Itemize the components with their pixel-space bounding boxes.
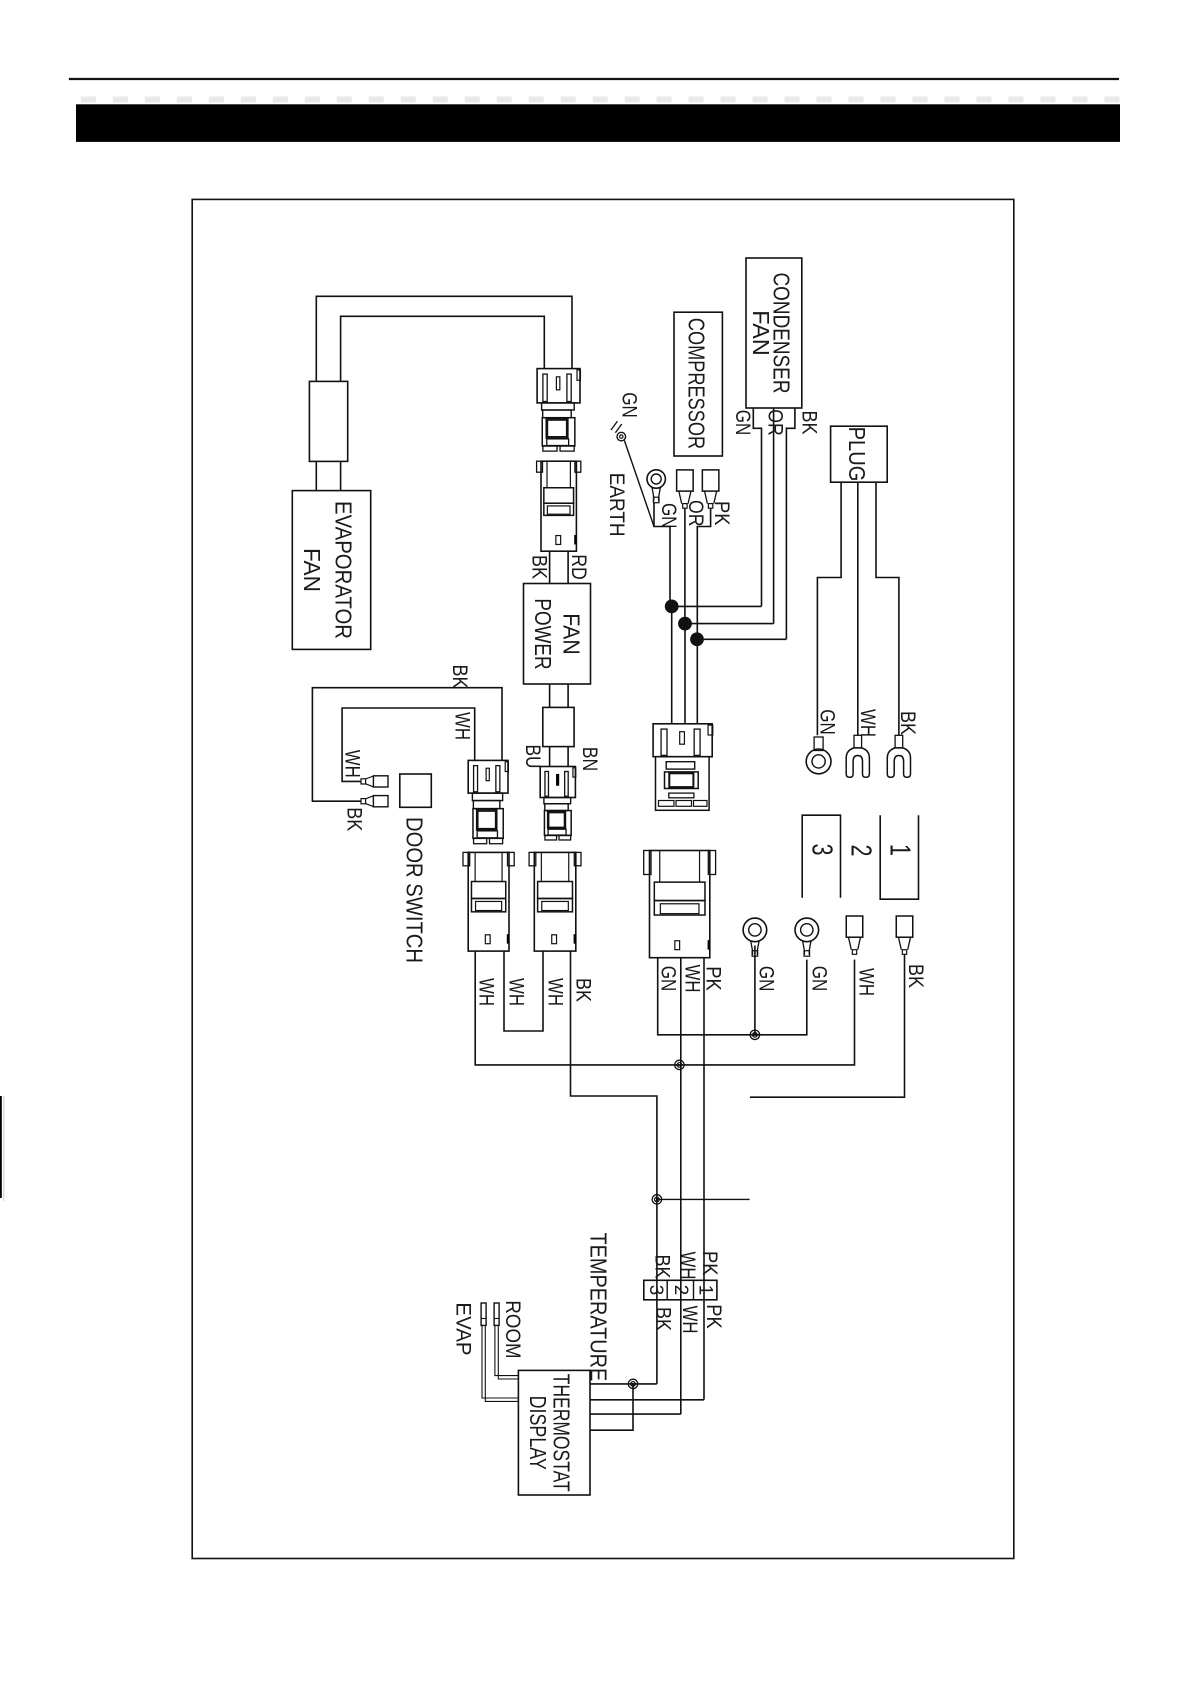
svg-text:OR: OR [764,409,788,436]
junction BK mid [652,1195,661,1204]
junction dot OR [678,617,692,631]
spade terminal BK [896,916,913,937]
wire evaporator fan inner lead [341,316,545,381]
wire PK to thermostat [590,1399,704,1401]
wire C2 PK [703,958,705,1400]
door switch spade WH [361,779,366,784]
wire evaporator fan outer lead [316,296,572,381]
connector P1 female half [542,403,575,410]
wire fan power down left [549,684,551,707]
svg-text:PK: PK [702,966,726,991]
svg-text:1: 1 [695,1285,716,1296]
svg-text:3: 3 [645,1285,666,1296]
sensor wire ROOM [495,1325,519,1375]
svg-text:GN: GN [657,503,681,529]
wire OR to compressor connector [684,624,686,724]
svg-text:EVAP: EVAP [452,1302,476,1355]
svg-text:PK: PK [698,1251,722,1276]
connector B2 receptacle [534,852,576,951]
svg-text:2: 2 [670,1285,691,1296]
wire plug GN [817,482,841,735]
svg-text:WH: WH [855,968,879,996]
svg-text:BK: BK [572,978,596,1003]
svg-text:BK: BK [343,807,367,832]
svg-text:1: 1 [883,844,915,856]
compressor spade OR [677,470,694,491]
svg-text:POWER: POWER [530,598,556,669]
svg-text:BK: BK [896,711,920,736]
wire ferrite to connector BU [549,747,551,767]
wire C2 GN [658,958,807,1035]
svg-text:EARTH: EARTH [605,473,629,537]
svg-text:WH: WH [544,978,568,1006]
svg-text:DISPLAY: DISPLAY [525,1396,551,1470]
wire door switch WH loop [342,708,475,781]
black title banner [76,104,1120,142]
svg-text:GN: GN [656,966,680,992]
svg-text:BN: BN [578,747,602,772]
wire BK to thermostat [590,1383,657,1385]
svg-text:BU: BU [521,745,545,769]
wire plug WH [857,482,859,735]
connector P1 male half [537,369,580,403]
plug ring terminal GN [806,749,831,774]
wire fan power down right [567,684,569,707]
sleeve on evaporator fan lead [309,381,347,461]
plug fork terminal BK [895,735,903,748]
faint dash row above banner [81,97,96,103]
sensor probe ROOM [494,1303,499,1325]
wire WH to thermostat [590,1413,681,1415]
spade terminal WH [846,916,863,937]
wire BK branch [590,1384,633,1430]
svg-text:WH: WH [856,709,880,737]
wire plug BK [876,482,899,735]
wire chassis to earth node [624,441,654,527]
terminal block 1 2 3 [644,1280,717,1300]
connector A male half [468,760,508,793]
diagram outer border [192,199,1014,1558]
junction BK branch [628,1379,637,1388]
left page-edge artifact [0,1096,2,1198]
junction dot GN [665,600,679,614]
svg-text:BK: BK [651,1255,675,1280]
wire OR junction to condenser [685,623,774,625]
connector A2 receptacle [468,852,509,951]
wire B2 WH down [504,951,543,1031]
compressor connector male half [653,724,712,757]
svg-text:WH: WH [505,978,529,1006]
svg-text:GN: GN [755,966,779,992]
wire ring A down [754,946,756,1035]
svg-text:WH: WH [676,1252,700,1280]
svg-text:PK: PK [710,501,734,526]
svg-text:WH: WH [475,978,499,1006]
svg-text:RD: RD [567,554,591,580]
svg-text:PLUG: PLUG [844,427,870,482]
svg-text:BK: BK [528,555,552,580]
wire A2 WH long [475,951,854,1065]
page top rule [69,78,1119,80]
svg-text:BK: BK [448,665,472,690]
ferrite sleeve [543,707,574,746]
wire condenser OR [773,408,775,624]
svg-text:BK: BK [798,411,822,436]
wire GN junction to condenser [672,605,762,607]
compressor spade PK [702,470,719,491]
connector B female half [544,798,571,804]
connector B male half [540,767,575,798]
svg-text:GN: GN [731,410,755,436]
svg-text:WH: WH [341,750,365,778]
ring terminal GN A [743,918,767,942]
svg-text:TEMPERATURE: TEMPERATURE [586,1233,612,1382]
svg-text:PK: PK [702,1304,726,1329]
wire earth ring to GN net [654,503,670,606]
earth ring terminal [647,470,665,488]
wire B2 BK down [571,951,657,1384]
compressor connector female half [656,757,710,811]
sensor probe EVAP [481,1303,486,1325]
junction dot BK [690,632,704,646]
svg-text:FAN: FAN [559,613,585,654]
svg-text:WH: WH [451,712,475,740]
junction WH crossing [675,1060,684,1069]
svg-text:WH: WH [678,1306,702,1334]
door switch spade BK [361,799,366,804]
junction ring A [750,1030,759,1039]
wire P2 to fan power BK [549,551,551,583]
svg-text:BK: BK [904,964,928,989]
evaporator fan box [292,491,370,650]
wire spade BK down [750,955,905,1098]
svg-text:EVAPORATOR: EVAPORATOR [330,501,356,639]
svg-text:OR: OR [684,500,708,527]
svg-text:BK: BK [651,1307,675,1332]
compressor box [674,312,722,456]
svg-text:GN: GN [816,709,840,735]
wire PK to compressor connector [696,639,698,724]
wire stub right [657,1198,750,1200]
wire door switch BK loop [312,688,502,802]
sensor wire EVAP [482,1325,518,1398]
svg-text:GN: GN [618,392,642,418]
wire GN to compressor connector [671,606,673,723]
svg-text:2: 2 [845,845,877,857]
compressor receptacle C2 [650,851,710,958]
svg-text:3: 3 [805,844,837,856]
wire PK down [697,508,710,639]
connector P2 receptacle [541,461,576,551]
wire BK junction to condenser [697,638,786,640]
wire OR down [684,508,686,624]
wire condenser GN [753,408,761,606]
svg-text:GN: GN [808,966,832,992]
door switch box [400,774,432,807]
wire P2 to fan power RD [567,551,569,583]
ring terminal GN B [795,918,819,942]
svg-text:FAN: FAN [299,548,325,592]
connector A female half [472,793,502,800]
svg-text:THERMOSTAT: THERMOSTAT [548,1374,574,1492]
condenser fan box [746,258,802,408]
fan power box [524,584,591,685]
wire condenser BK [786,408,795,639]
svg-text:DOOR SWITCH: DOOR SWITCH [402,817,428,963]
chassis earth screw [617,432,626,441]
svg-text:ROOM: ROOM [501,1300,525,1358]
plug fork terminal WH [854,735,862,748]
svg-text:WH: WH [681,965,705,993]
thermostat display box [518,1370,590,1495]
plug box [831,426,888,482]
box 1 [880,815,918,899]
wire ferrite to connector BN [567,747,569,767]
svg-text:COMPRESSOR: COMPRESSOR [684,318,710,449]
svg-text:FAN: FAN [748,310,774,355]
wire sleeve to evaporator fan [315,461,317,490]
wire C2 WH [680,958,682,1414]
box 3 [802,815,840,898]
